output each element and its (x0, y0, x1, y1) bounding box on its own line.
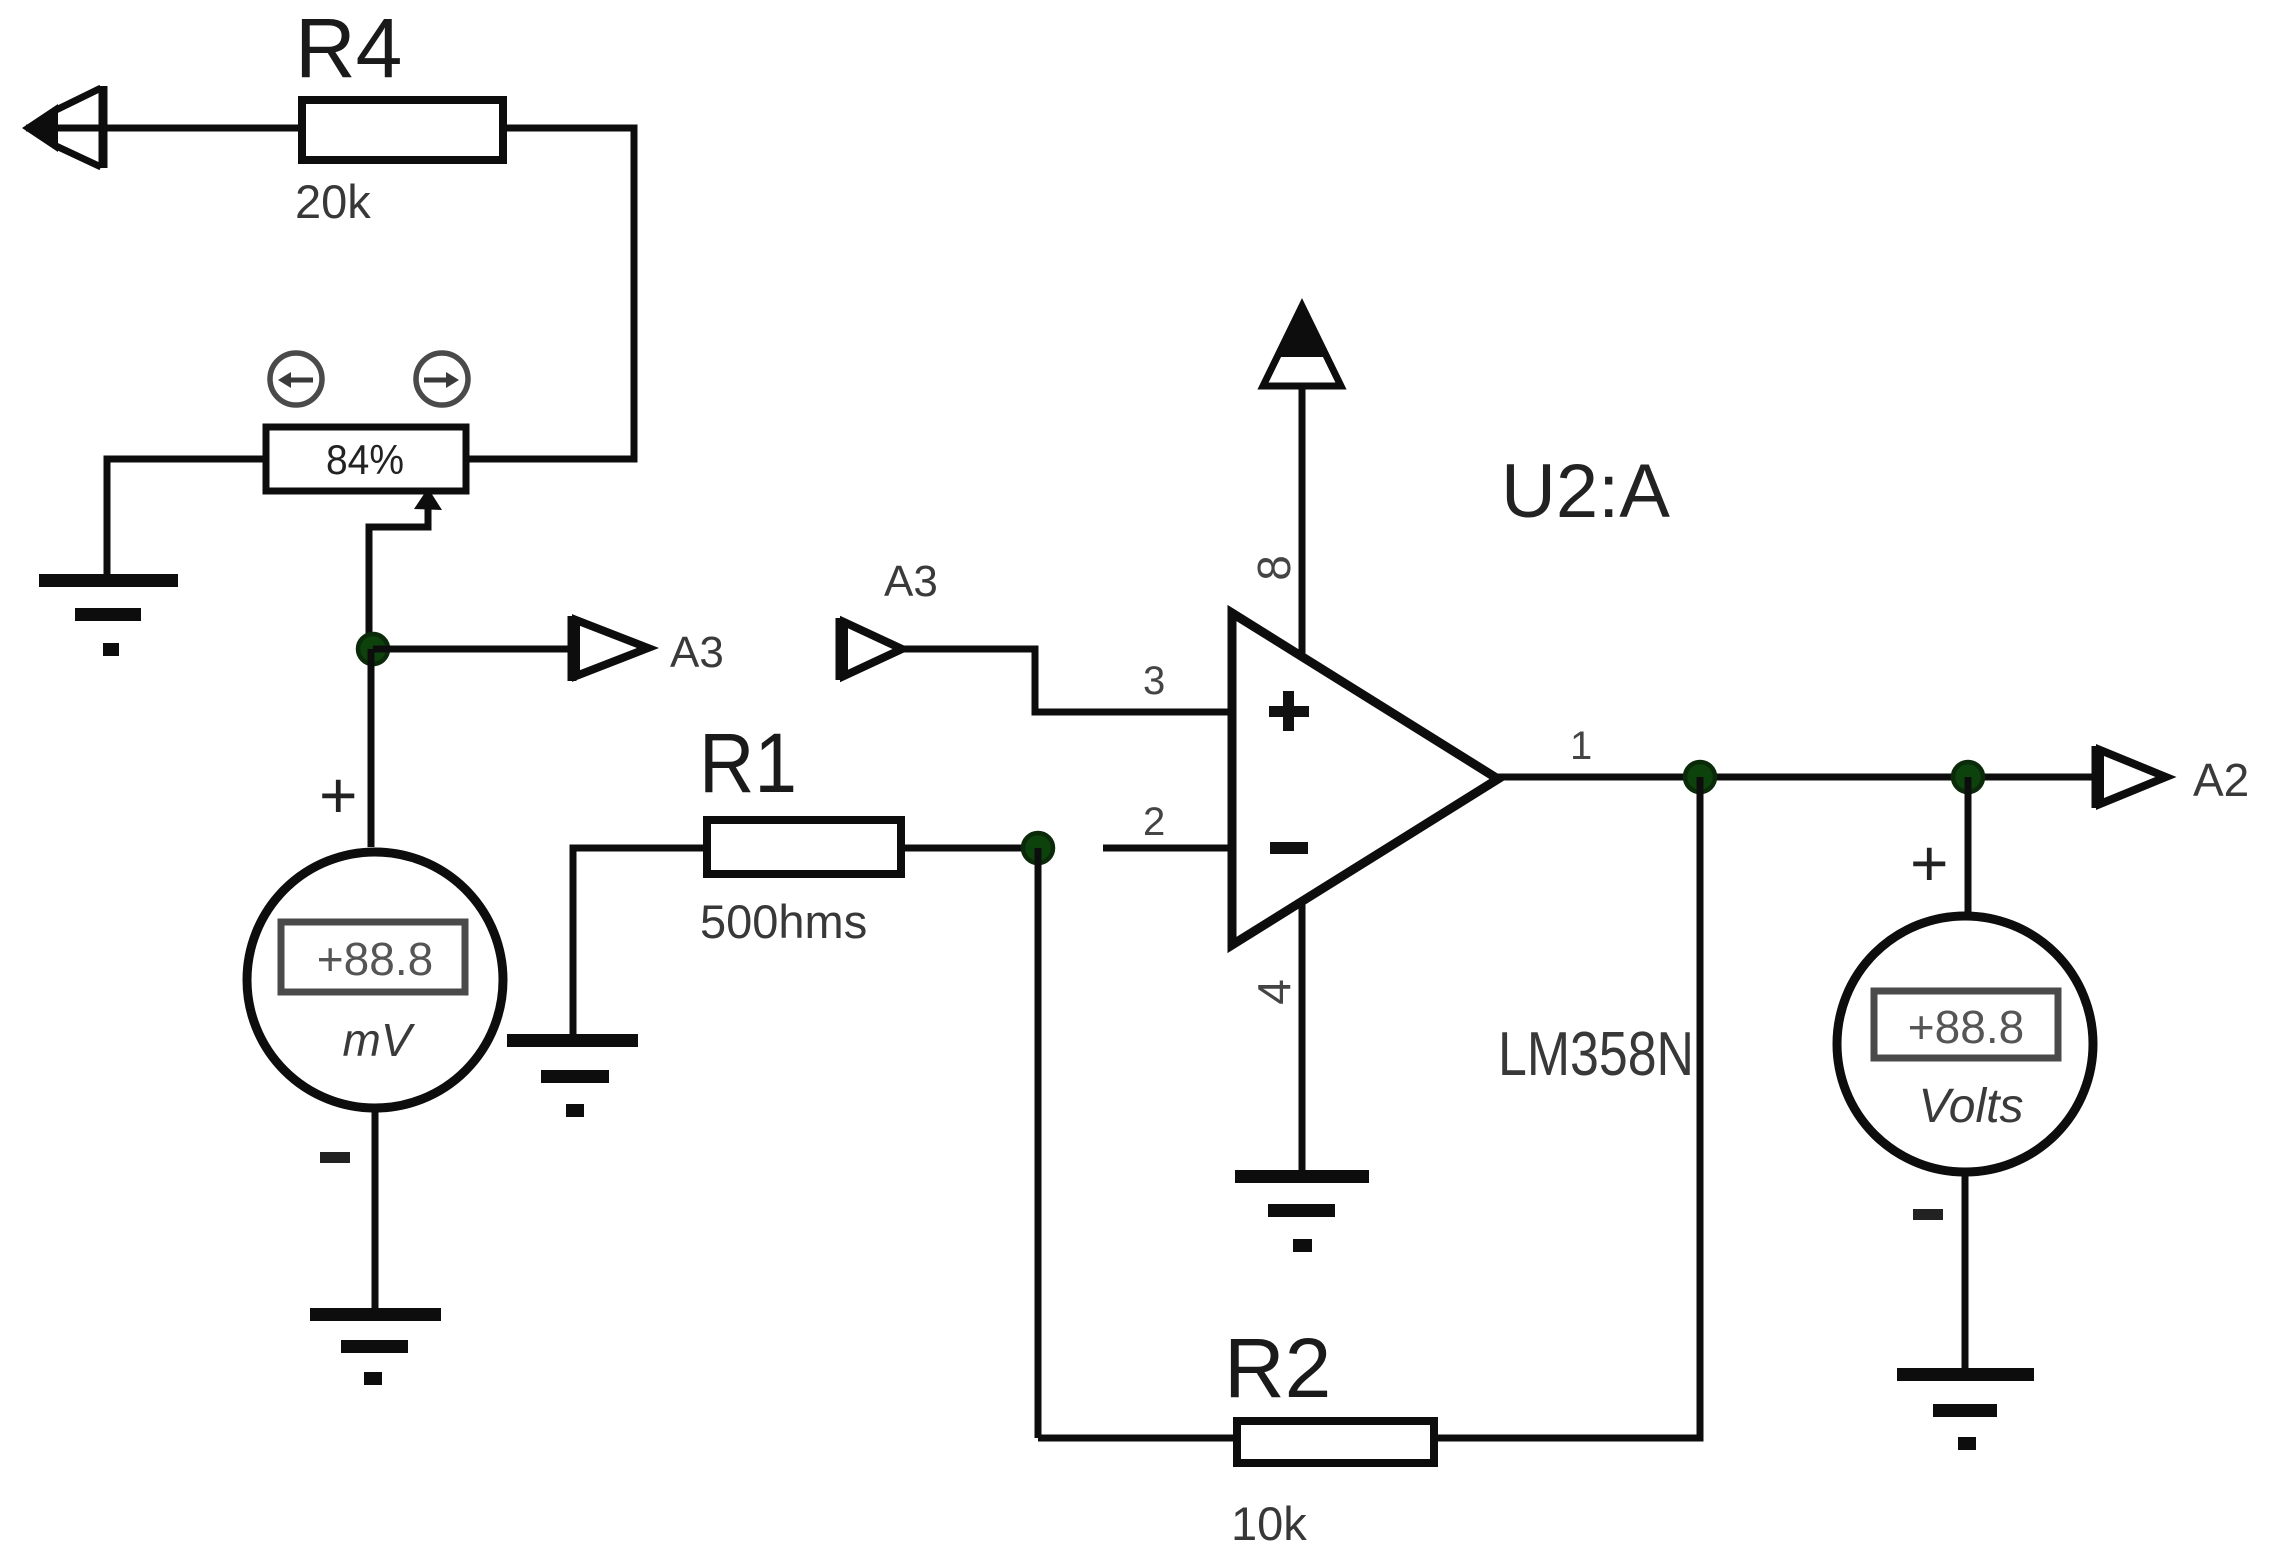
wire pot left to ground (107, 459, 263, 576)
ground (pin 4) (1235, 1170, 1369, 1252)
wire Volts meter to ground (1962, 1176, 1969, 1368)
svg-text:2: 2 (1143, 800, 1165, 844)
Volts display box (1874, 991, 2058, 1058)
pot wiper arrow (369, 488, 442, 652)
ground (R1 left) (507, 1034, 638, 1117)
voltmeter mV body (247, 852, 503, 1108)
svg-text:+: + (1910, 826, 1949, 900)
svg-text:10k: 10k (1231, 1497, 1307, 1548)
svg-text:LM358N: LM358N (1498, 1020, 1694, 1089)
op-amp minus sign (1270, 842, 1308, 854)
svg-text:20k: 20k (295, 175, 371, 228)
ground (pot left) (39, 574, 178, 656)
ground (mV meter) (310, 1308, 441, 1385)
svg-text:A3: A3 (884, 557, 938, 606)
feedback wire to R2 (1438, 777, 1700, 1438)
pin 2 stub (1103, 845, 1231, 852)
svg-text:R1: R1 (699, 716, 797, 810)
wire terminal to R4 (26, 125, 298, 132)
svg-text:3: 3 (1143, 659, 1165, 703)
ground (Volts meter) (1897, 1368, 2034, 1450)
svg-text:A2: A2 (2193, 754, 2249, 806)
terminal A2 (2096, 746, 2166, 808)
terminal arrow left of R4 (22, 86, 103, 168)
svg-text:+88.8: +88.8 (317, 933, 433, 985)
svg-text:U2:A: U2:A (1501, 449, 1670, 534)
voltmeter Volts body (1837, 916, 2093, 1172)
svg-text:4: 4 (1248, 979, 1300, 1005)
svg-text:+: + (319, 758, 358, 832)
svg-text:8: 8 (1248, 555, 1300, 581)
wire junction down to mV meter (368, 649, 375, 847)
pot increase button (416, 353, 468, 405)
mV display box (281, 922, 465, 992)
svg-text:84%: 84% (326, 436, 404, 483)
svg-text:1: 1 (1570, 724, 1592, 768)
power arrow (pin 8) (1263, 306, 1341, 656)
wire R1 left to ground (573, 848, 703, 1034)
svg-text:A3: A3 (670, 628, 724, 677)
resistor R4 (302, 100, 503, 160)
wire R1 to node (905, 845, 1030, 852)
minus label (mV meter) (320, 1152, 350, 1163)
node junction (inverting) (1023, 833, 1053, 863)
pin 4 wire (1299, 903, 1306, 1170)
wire R2 left (1038, 1435, 1233, 1442)
minus label (Volts meter) (1913, 1209, 1943, 1220)
node junction (wiper) (358, 634, 388, 664)
terminal A3 (op-amp input) (840, 618, 902, 680)
wire node down to R2 (1035, 848, 1042, 1438)
wire mV meter to ground (372, 1112, 379, 1308)
resistor R1 (707, 820, 901, 874)
svg-text:R4: R4 (295, 1, 402, 95)
output wire pin 1 (1498, 774, 2096, 781)
pot decrease button (270, 353, 322, 405)
potentiometer RV body (266, 427, 466, 491)
resistor R2 (1237, 1421, 1434, 1463)
wire node down to Volts meter (1965, 777, 1972, 912)
terminal A3 (left) (572, 616, 648, 681)
op-amp plus sign (1269, 691, 1309, 731)
wire R4 to pot right (469, 128, 634, 459)
wire junction to A3 terminal (373, 646, 568, 653)
wire A3 to pin 3 (900, 649, 1231, 712)
node junction (output/voltmeter) (1953, 762, 1983, 792)
op-amp U2:A triangle (1232, 613, 1498, 945)
node junction (output/R2) (1685, 762, 1715, 792)
svg-text:Volts: Volts (1919, 1080, 2024, 1133)
svg-text:500hms: 500hms (700, 895, 867, 948)
svg-text:mV: mV (343, 1014, 416, 1066)
svg-text:R2: R2 (1224, 1321, 1331, 1415)
svg-text:+88.8: +88.8 (1908, 1001, 2024, 1053)
